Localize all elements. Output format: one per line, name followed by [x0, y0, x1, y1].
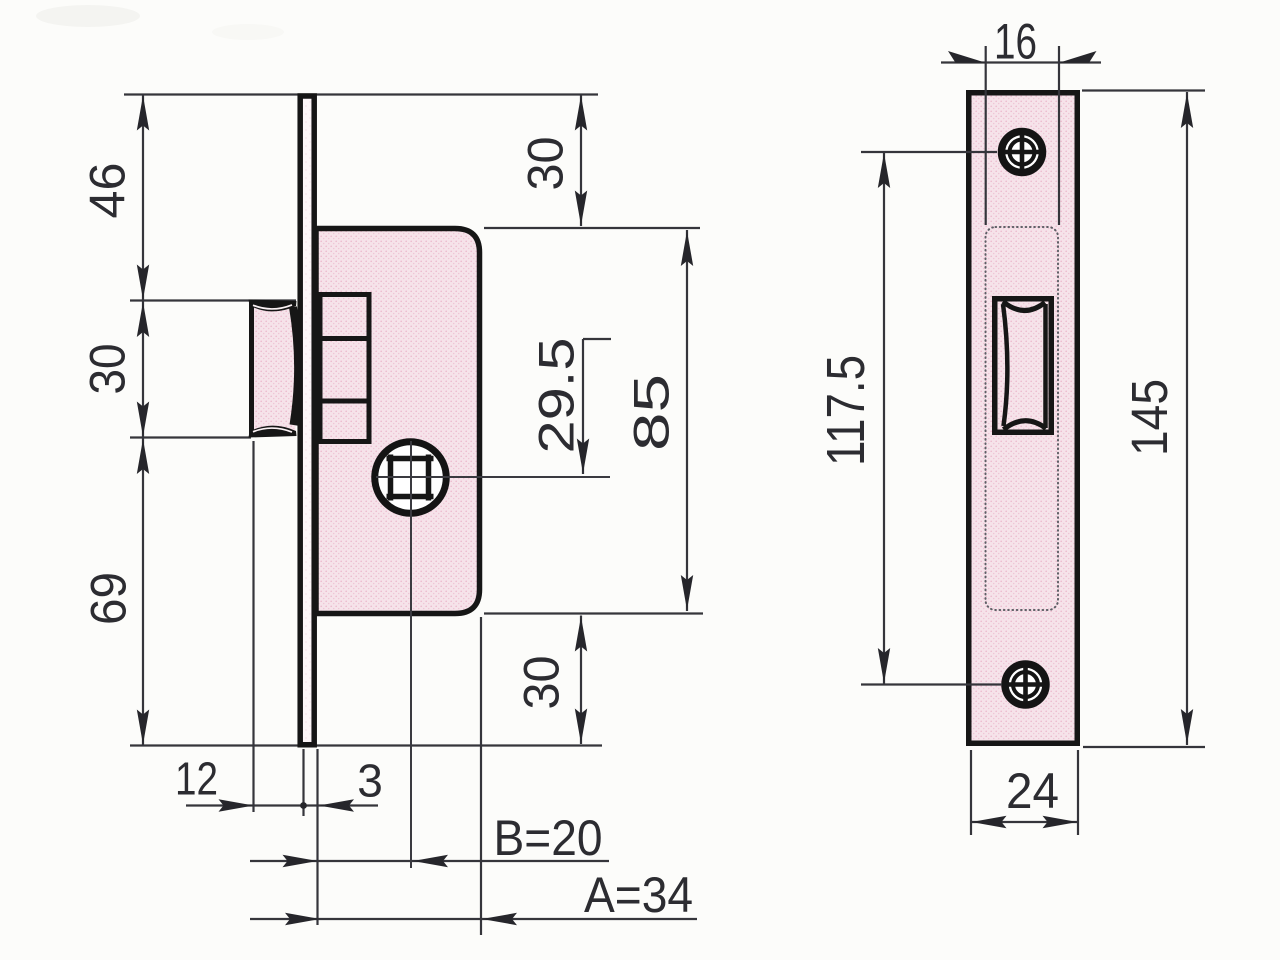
svg-text:12: 12 [175, 753, 218, 805]
ext line y300 latch top [130, 299, 296, 301]
svg-text:46: 46 [80, 163, 136, 219]
svg-text:16: 16 [994, 14, 1037, 70]
latch bolt face right edge [1043, 304, 1048, 428]
dimension 117.5 [883, 152, 885, 684]
svg-text:30: 30 [80, 344, 136, 395]
latch bolt face top arc [1003, 302, 1045, 311]
svg-text:85: 85 [624, 374, 680, 451]
ext line 16 right [1058, 46, 1060, 225]
svg-text:117.5: 117.5 [816, 355, 876, 466]
ext vert body right x481 [480, 617, 482, 935]
dimension 29.5 half-dim [582, 339, 584, 474]
spindle centerline vertical [410, 441, 412, 868]
ext line 24 right [1077, 750, 1079, 835]
follower rack [320, 295, 369, 442]
svg-text:B=20: B=20 [494, 810, 603, 866]
dimension 145 [1186, 92, 1188, 745]
dimension 46 [142, 95, 144, 300]
faceplate (side view) [300, 96, 314, 745]
ext line 117.5 top [861, 151, 997, 153]
lock body [316, 229, 480, 614]
latch bolt face left bow [1003, 304, 1007, 426]
svg-text:24: 24 [1006, 763, 1059, 819]
svg-text:30: 30 [518, 137, 574, 191]
svg-text:29.5: 29.5 [529, 338, 585, 454]
latch crescent [293, 307, 298, 425]
dimension B=20 [250, 860, 609, 862]
latch bolt face bottom arc [1004, 421, 1047, 430]
ext line body bottom right [484, 612, 703, 614]
dimension 24 [971, 821, 1078, 823]
ext vert plate left face x303 [302, 749, 304, 816]
ext vert latch tip x253 [252, 441, 254, 812]
dimension 30 left [142, 301, 144, 437]
dimension 30 bottom-right [580, 616, 582, 745]
svg-text:A=34: A=34 [584, 867, 693, 923]
ext line bottom y745 [130, 744, 602, 746]
dimension 85 [686, 230, 688, 611]
svg-text:3: 3 [357, 755, 383, 807]
ext line 145 bottom [1083, 746, 1205, 748]
ext line body top right [484, 227, 700, 229]
ext line top y94 [124, 93, 598, 95]
dimension 16 [941, 61, 1101, 63]
spindle square hole [387, 456, 434, 462]
faint scan smudge top-left [36, 5, 140, 27]
dotted lock-case rectangle [986, 227, 1059, 610]
ext line 117.5 bottom [861, 683, 1002, 685]
dimension 30 top-right [580, 95, 582, 226]
svg-text:69: 69 [81, 572, 137, 625]
top screw [1002, 132, 1043, 173]
ext vert plate right face x317 [316, 749, 318, 925]
ext line 24 left [970, 750, 972, 835]
bottom screw [1005, 664, 1046, 705]
ext line y437 latch bottom [130, 436, 251, 438]
latch opening [995, 299, 1052, 433]
striker faceplate front view [969, 93, 1078, 744]
ext line 145 top [1082, 89, 1205, 91]
dimension 12 and 3 line [186, 804, 378, 806]
dimension A=34 [250, 918, 697, 920]
latch bolt [252, 304, 296, 433]
svg-text:30: 30 [514, 656, 570, 710]
spindle hub [375, 442, 447, 514]
dimension 69 [142, 438, 144, 745]
svg-text:145: 145 [1121, 379, 1178, 456]
ext line 16 left [985, 46, 987, 225]
spindle centerline horizontal [376, 476, 610, 478]
